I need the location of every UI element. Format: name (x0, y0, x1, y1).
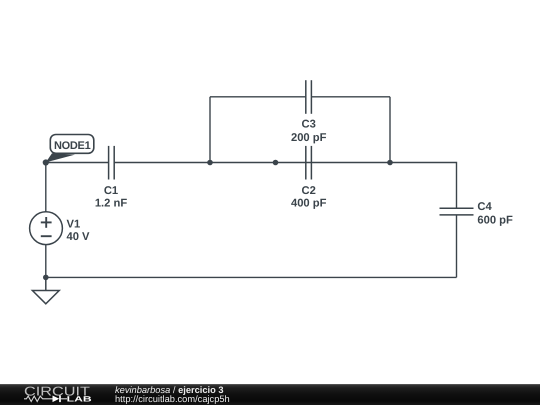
voltage source V1 (30, 212, 63, 245)
junction bypass-left on main wire (207, 160, 213, 166)
wire: V1 bottom to ground junction (45, 245, 47, 278)
wire: bypass top horizontal right of C3 (311, 96, 390, 98)
svg-text:C4: C4 (477, 201, 492, 213)
node NODE1 flag (46, 135, 94, 163)
svg-text:400 pF: 400 pF (291, 197, 327, 209)
capacitor C2 (306, 146, 312, 180)
ground (32, 277, 59, 303)
svg-text:NODE1: NODE1 (54, 140, 91, 152)
wire: main horizontal left segment (node to C1) (46, 162, 109, 164)
capacitor C4 (440, 208, 474, 215)
wire: left vertical (node down to V1 top) (45, 163, 47, 212)
svg-text:40 V: 40 V (67, 231, 91, 243)
CircuitLab logo (24, 384, 94, 405)
svg-text:C2: C2 (302, 185, 316, 197)
node NODE1 junction (43, 159, 49, 165)
wire: bypass right vertical (389, 97, 391, 163)
capacitor C3 (306, 80, 312, 114)
wire: main horizontal right segment (C1 to top-right corner, through C2) (114, 163, 456, 209)
credit text (115, 386, 230, 404)
svg-text:600 pF: 600 pF (477, 214, 513, 226)
wire: bottom horizontal (ground junction to right vertical) (46, 276, 457, 278)
junction ground node (43, 275, 49, 281)
svg-text:C1: C1 (104, 185, 118, 197)
svg-text:C3: C3 (302, 119, 316, 131)
junction bypass-right on main wire (387, 160, 393, 166)
capacitor C1 (109, 146, 115, 180)
wire: bypass left vertical (209, 97, 211, 163)
svg-text:V1: V1 (67, 219, 81, 231)
wire: bypass top horizontal left of C3 (210, 96, 306, 98)
footer bar (0, 384, 540, 405)
svg-text:200 pF: 200 pF (291, 132, 327, 144)
junction mid main wire (273, 160, 279, 166)
wire: right vertical below C4 (456, 215, 458, 278)
svg-text:LAB: LAB (67, 394, 93, 403)
svg-text:1.2 nF: 1.2 nF (95, 197, 127, 209)
